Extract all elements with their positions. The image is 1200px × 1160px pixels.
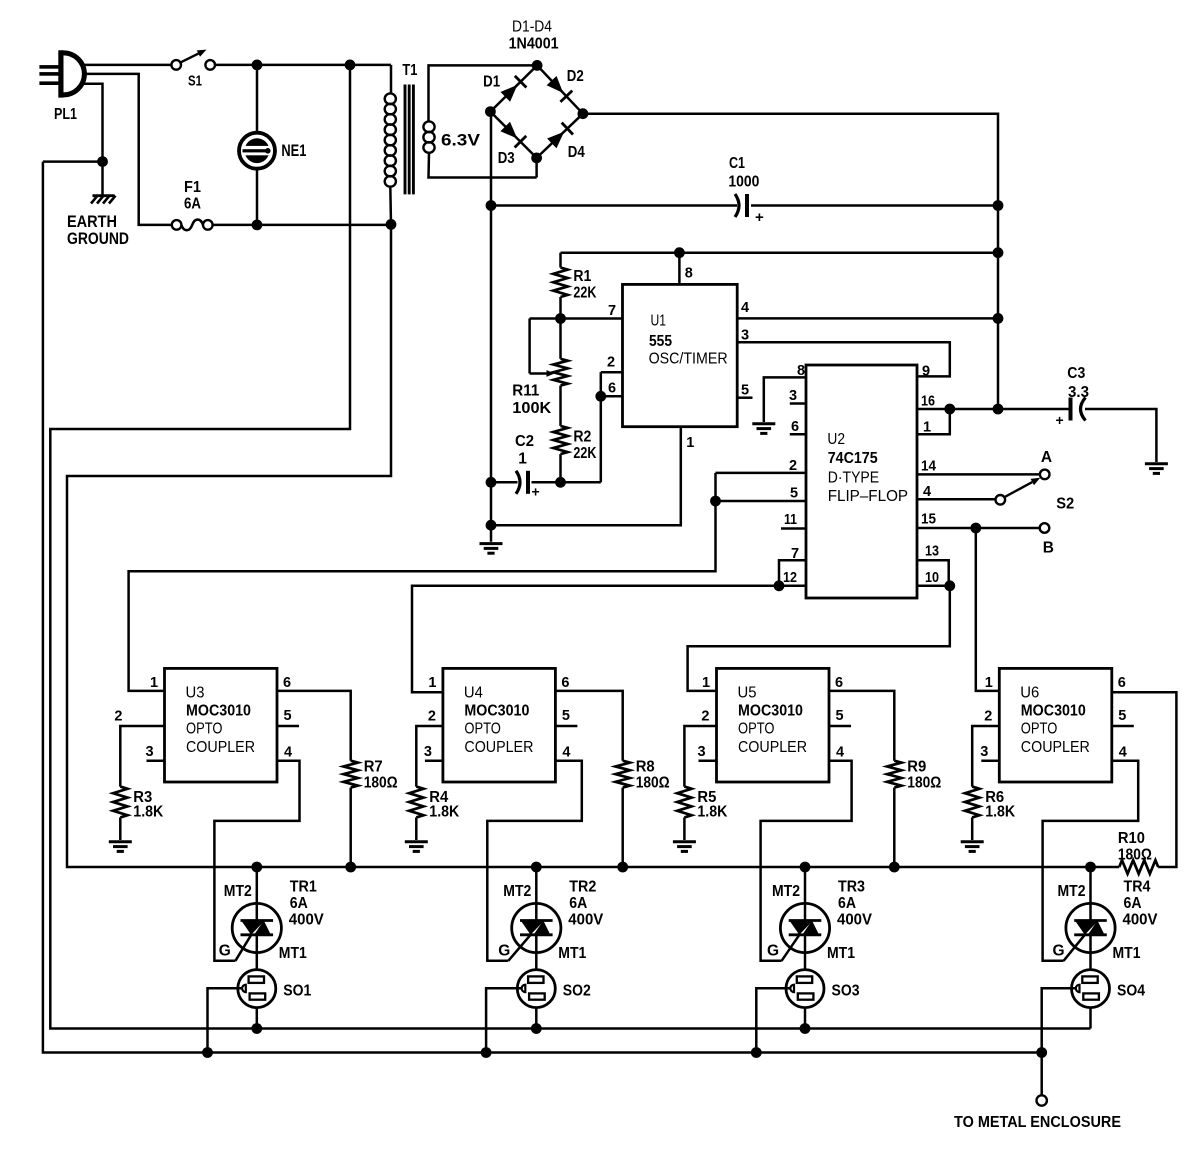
svg-text:MOC3010: MOC3010 xyxy=(186,703,251,720)
svg-text:6A: 6A xyxy=(1124,895,1142,912)
svg-text:6A: 6A xyxy=(184,196,201,213)
svg-text:1: 1 xyxy=(702,675,710,691)
wire U3 pin5 stub xyxy=(277,725,299,728)
node U2 pin10 junction xyxy=(944,580,955,591)
node U2 pin16 junction xyxy=(944,404,955,415)
svg-text:U6: U6 xyxy=(1020,685,1039,702)
wire U5 pin5 stub xyxy=(829,725,851,728)
svg-text:6A: 6A xyxy=(290,895,308,912)
svg-text:74C175: 74C175 xyxy=(828,450,878,467)
svg-text:1.8K: 1.8K xyxy=(697,804,728,821)
svg-text:D3: D3 xyxy=(498,150,515,167)
wire MT2 lead xyxy=(804,867,807,904)
wire ground junction to left rail xyxy=(43,160,103,163)
svg-text:COUPLER: COUPLER xyxy=(186,739,255,756)
node R2 bottom junction xyxy=(555,477,566,488)
svg-text:D4: D4 xyxy=(568,144,585,161)
wire fused drop to triac rail xyxy=(67,224,1119,867)
wire U2 pin11 stub xyxy=(781,527,806,530)
wire U6 pin6 to R10 xyxy=(1112,692,1177,867)
socket SO4 xyxy=(1072,970,1110,1008)
switch S2 blade xyxy=(1005,482,1032,497)
node pin4 right junction xyxy=(993,313,1004,324)
svg-text:5: 5 xyxy=(741,383,749,399)
svg-text:12: 12 xyxy=(783,570,797,586)
svg-text:7: 7 xyxy=(608,303,616,319)
node bridge bottom vertex xyxy=(531,153,542,164)
resistor R7 180 xyxy=(344,761,358,788)
svg-text:U4: U4 xyxy=(464,685,483,702)
wire U2 pin10 xyxy=(917,585,949,588)
svg-text:400V: 400V xyxy=(837,912,873,929)
node R8 rail junction xyxy=(617,862,628,873)
svg-text:6: 6 xyxy=(791,419,799,435)
svg-text:16: 16 xyxy=(921,394,935,410)
svg-text:R7: R7 xyxy=(364,759,383,776)
wire plug ground drop xyxy=(82,84,103,162)
svg-text:180Ω: 180Ω xyxy=(364,775,398,792)
wire U2 pin15 to B xyxy=(917,527,1040,530)
wire U5 pin3 stub xyxy=(699,759,717,762)
wire plug hot to S1 xyxy=(82,64,172,67)
svg-text:NE1: NE1 xyxy=(281,142,306,160)
node SO3 rail1 junction xyxy=(800,1023,811,1034)
node NE1 top tap xyxy=(252,60,263,71)
terminal A xyxy=(1040,470,1050,480)
svg-text:D1-D4: D1-D4 xyxy=(512,19,552,36)
wire gate diagonal TR1 xyxy=(235,934,251,961)
svg-text:MT1: MT1 xyxy=(827,945,855,962)
svg-text:4: 4 xyxy=(284,745,292,761)
node R9 rail junction xyxy=(889,862,900,873)
svg-text:4: 4 xyxy=(836,745,844,761)
node R1 bottom junction xyxy=(555,313,566,324)
AC plug PL1 xyxy=(58,50,63,97)
svg-text:S2: S2 xyxy=(1056,496,1074,513)
wire MT1 lead xyxy=(535,953,538,970)
svg-text:TR2: TR2 xyxy=(569,879,596,896)
svg-text:2: 2 xyxy=(789,458,797,474)
ground C3 xyxy=(1145,462,1168,465)
svg-text:5: 5 xyxy=(284,708,292,724)
wire U1 pin7 xyxy=(530,317,623,320)
svg-text:180Ω: 180Ω xyxy=(907,775,941,792)
svg-text:400V: 400V xyxy=(289,912,325,929)
wire U4 pin6 to R xyxy=(555,691,622,761)
node TR1 MT2 rail junction xyxy=(251,862,262,873)
resistor R10 180 xyxy=(1119,860,1158,874)
capacitor C1 line right xyxy=(751,204,998,207)
opto-coupler U4 box xyxy=(443,668,556,782)
triac TR1 xyxy=(232,903,281,952)
wire SO4 bottom lead xyxy=(1089,1008,1092,1029)
svg-text:R8: R8 xyxy=(636,759,655,776)
svg-text:G: G xyxy=(498,943,510,960)
svg-text:OSC/TIMER: OSC/TIMER xyxy=(649,351,728,368)
diode D3 xyxy=(500,122,517,139)
svg-text:1: 1 xyxy=(150,675,158,691)
svg-text:MT1: MT1 xyxy=(1113,945,1141,962)
fuse F1 xyxy=(172,220,182,230)
svg-text:3: 3 xyxy=(980,744,988,760)
wire SO3 ground-pin lead xyxy=(756,988,790,1052)
wire U5 pin2 to R xyxy=(684,726,716,787)
svg-text:SO1: SO1 xyxy=(283,983,311,1000)
svg-text:1: 1 xyxy=(923,420,931,436)
wire U3 pin3 stub xyxy=(147,759,165,762)
node SO2 rail2 junction xyxy=(481,1047,492,1058)
capacitor C1 xyxy=(735,194,739,217)
svg-text:1.8K: 1.8K xyxy=(985,804,1016,821)
svg-text:5: 5 xyxy=(1118,708,1126,724)
wire MT1 lead xyxy=(804,953,807,970)
svg-text:400V: 400V xyxy=(568,912,604,929)
svg-text:6: 6 xyxy=(608,381,616,397)
wire to metal enclosure xyxy=(1040,1053,1043,1096)
svg-text:R9: R9 xyxy=(907,759,926,776)
node SO4 rail2 junction xyxy=(1036,1047,1047,1058)
wire C2 to R2 xyxy=(532,481,601,484)
wire U2 pin15 to U6 feed xyxy=(976,528,1000,691)
svg-text:R11: R11 xyxy=(512,383,539,400)
svg-text:10: 10 xyxy=(925,570,939,586)
svg-text:555: 555 xyxy=(649,333,672,350)
wire SO2 bottom lead xyxy=(535,1008,538,1029)
potentiometer R11 xyxy=(553,359,567,386)
ground R6 xyxy=(961,840,984,843)
svg-text:9: 9 xyxy=(922,364,930,380)
node NE1 bottom tap xyxy=(252,220,263,231)
node SO1 rail1 junction xyxy=(251,1023,262,1034)
ground R5 xyxy=(673,840,696,843)
wire MT1 lead xyxy=(1089,953,1092,970)
svg-text:6A: 6A xyxy=(838,895,856,912)
wire U2 pin4 to S2 xyxy=(917,498,995,501)
wire switched-hot top rail xyxy=(215,64,391,67)
wire SO1 ground-pin lead xyxy=(208,988,243,1052)
svg-text:4: 4 xyxy=(562,745,570,761)
svg-text:R1: R1 xyxy=(573,268,591,285)
svg-text:2: 2 xyxy=(984,709,992,725)
node C1 right junction xyxy=(993,200,1004,211)
svg-text:OPTO: OPTO xyxy=(464,721,501,738)
svg-text:5: 5 xyxy=(790,486,798,502)
wire fused line to transformer xyxy=(212,224,391,227)
node SO3 rail2 junction xyxy=(751,1047,762,1058)
svg-text:100K: 100K xyxy=(512,400,552,417)
wire SO4 ground-pin lead xyxy=(1042,988,1076,1052)
triac TR2 xyxy=(512,903,561,952)
svg-text:6: 6 xyxy=(561,675,569,691)
wire MT1 lead xyxy=(256,953,259,970)
wire U2 pin14 to A xyxy=(917,473,1040,476)
svg-text:1: 1 xyxy=(985,675,993,691)
wire gate diagonal TR4 xyxy=(1064,934,1086,961)
resistor R3 1.8K xyxy=(113,787,127,818)
node C1 left junction xyxy=(486,200,497,211)
svg-text:MOC3010: MOC3010 xyxy=(1021,703,1086,720)
svg-text:1: 1 xyxy=(686,435,694,451)
wire U1 pin6 xyxy=(601,395,623,398)
wire SO3 bottom lead xyxy=(804,1008,807,1029)
wire U2 pin12 to U4 feed xyxy=(412,586,779,693)
triac TR4 xyxy=(1066,903,1115,952)
svg-text:2: 2 xyxy=(428,709,436,725)
socket SO1 xyxy=(238,970,276,1008)
wire U6 pin5 stub xyxy=(1112,725,1134,728)
transformer T1 primary xyxy=(390,65,393,94)
svg-text:MOC3010: MOC3010 xyxy=(464,703,529,720)
svg-text:2: 2 xyxy=(607,355,615,371)
wire U1 pin8 lead xyxy=(678,253,681,285)
svg-text:U5: U5 xyxy=(738,685,757,702)
node T1 primary bottom junction xyxy=(386,219,397,230)
opto-coupler U6 box xyxy=(999,668,1112,782)
socket SO3 xyxy=(786,970,824,1008)
svg-text:7: 7 xyxy=(791,546,799,562)
node bridge right vertex xyxy=(578,108,589,119)
svg-text:14: 14 xyxy=(921,459,936,475)
svg-text:PL1: PL1 xyxy=(54,106,77,123)
svg-text:TR1: TR1 xyxy=(290,879,317,896)
svg-text:C2: C2 xyxy=(515,433,534,450)
node U2 pin5 junction xyxy=(710,496,721,507)
svg-text:1.8K: 1.8K xyxy=(133,804,164,821)
node bridge top vertex xyxy=(532,60,543,71)
capacitor C2 line xyxy=(491,481,518,484)
svg-text:OPTO: OPTO xyxy=(1021,721,1058,738)
resistor R8 180 xyxy=(616,761,630,788)
svg-text:SO2: SO2 xyxy=(563,983,591,1000)
wire U1 pin2 xyxy=(601,371,623,374)
wire U2 pin5 xyxy=(716,500,807,503)
svg-text:C1: C1 xyxy=(729,155,745,172)
diode D1 xyxy=(501,85,518,102)
svg-text:11: 11 xyxy=(784,512,797,528)
svg-text:MT2: MT2 xyxy=(772,883,800,900)
resistor R2 xyxy=(553,426,567,454)
wire U3 pin2 to R xyxy=(120,726,164,787)
svg-text:MOC3010: MOC3010 xyxy=(738,703,803,720)
svg-text:6: 6 xyxy=(835,675,843,691)
wire U2 pin3 stub xyxy=(790,402,806,405)
wire gate diagonal TR2 xyxy=(508,934,531,961)
svg-text:5: 5 xyxy=(562,708,570,724)
svg-text:3: 3 xyxy=(698,744,706,760)
svg-text:3: 3 xyxy=(424,744,432,760)
svg-text:COUPLER: COUPLER xyxy=(464,739,533,756)
wire U4 pin4 to gate xyxy=(487,761,582,961)
op IC U1 555 box xyxy=(623,284,738,426)
node TR2 MT2 rail junction xyxy=(531,862,542,873)
svg-text:OPTO: OPTO xyxy=(738,721,775,738)
svg-text:MT1: MT1 xyxy=(558,945,586,962)
svg-text:5: 5 xyxy=(836,708,844,724)
opto-coupler U5 box xyxy=(717,668,830,782)
svg-text:SO4: SO4 xyxy=(1117,983,1145,1000)
svg-text:6A: 6A xyxy=(569,895,587,912)
wire plug neutral xyxy=(84,74,172,225)
svg-text:C3: C3 xyxy=(1067,365,1085,382)
terminal B xyxy=(1040,523,1050,533)
wire U2 pin1 bracket xyxy=(917,409,950,434)
transformer T1 core xyxy=(404,85,407,195)
svg-text:R2: R2 xyxy=(573,429,591,446)
svg-text:F1: F1 xyxy=(184,179,201,196)
wire C3 left xyxy=(998,408,1069,411)
svg-text:1000: 1000 xyxy=(728,174,759,191)
svg-text:180Ω: 180Ω xyxy=(1118,847,1152,864)
wire DC+ top rail xyxy=(583,114,998,409)
ground U2 pin8 xyxy=(752,422,775,425)
capacitor C2 xyxy=(516,471,520,494)
ground R4 xyxy=(405,840,428,843)
svg-text:13: 13 xyxy=(925,544,939,560)
svg-text:MT2: MT2 xyxy=(503,883,531,900)
svg-text:15: 15 xyxy=(921,512,936,528)
diode D2 xyxy=(547,76,564,93)
wire U2 pin16 line xyxy=(917,408,998,411)
svg-text:D·TYPE: D·TYPE xyxy=(828,470,879,487)
svg-text:MT2: MT2 xyxy=(1058,883,1086,900)
wire U4 pin2 to R xyxy=(416,726,443,787)
resistor R1 xyxy=(559,253,562,268)
wire gate diagonal TR3 xyxy=(782,934,800,961)
opto-coupler U3 box xyxy=(165,668,278,782)
wire U6 pin3 stub xyxy=(981,759,999,762)
wire SO1 bottom lead xyxy=(256,1008,259,1029)
node pin2-6 junction xyxy=(595,391,606,402)
node DC+ C3 junction xyxy=(993,404,1004,415)
switch S1 xyxy=(171,60,181,70)
wire U2 pin10 to U5 feed xyxy=(688,586,950,691)
node Vcc right junction xyxy=(993,247,1004,258)
node plug-ground junction xyxy=(97,156,108,167)
node U2 pin15 junction xyxy=(970,523,981,534)
svg-text:1N4001: 1N4001 xyxy=(509,36,559,53)
node TR4 MT2 rail junction xyxy=(1085,862,1096,873)
svg-text:4: 4 xyxy=(1119,745,1127,761)
svg-text:TR4: TR4 xyxy=(1124,879,1151,896)
node TR3 MT2 rail junction xyxy=(800,862,811,873)
svg-text:1: 1 xyxy=(428,675,436,691)
wire U1 pin2-6 bracket xyxy=(600,372,603,396)
capacitor C1 line left xyxy=(491,204,737,207)
svg-text:A: A xyxy=(1041,449,1052,466)
wire MT2 lead xyxy=(535,867,538,904)
node bridge left vertex xyxy=(485,106,496,117)
wire C3 right to ground xyxy=(1085,409,1156,462)
resistor R4 1.8K xyxy=(409,787,423,818)
svg-text:2: 2 xyxy=(701,709,709,725)
resistor R9 180 xyxy=(887,761,901,788)
svg-text:B: B xyxy=(1043,540,1054,557)
node R7 rail junction xyxy=(345,862,356,873)
wire DC- vertical xyxy=(490,112,493,526)
wire U3 pin4 to gate xyxy=(214,761,299,961)
svg-text:400V: 400V xyxy=(1123,912,1159,929)
socket SO2 xyxy=(517,970,555,1008)
svg-text:4: 4 xyxy=(741,300,749,316)
node SO2 rail1 junction xyxy=(531,1023,542,1034)
wire U4 pin3 stub xyxy=(425,759,443,762)
wire U6 pin4 to gate xyxy=(1043,761,1139,961)
svg-text:MT1: MT1 xyxy=(279,945,307,962)
svg-text:G: G xyxy=(219,943,231,960)
wire bottom vertex drop xyxy=(535,158,538,178)
svg-text:4: 4 xyxy=(923,484,931,500)
svg-text:U2: U2 xyxy=(827,431,845,448)
svg-text:6: 6 xyxy=(283,675,291,691)
wire MT2 lead xyxy=(1089,867,1092,904)
node C2 left junction xyxy=(486,477,497,488)
svg-text:G: G xyxy=(1053,943,1065,960)
wire U3 pin6 to R xyxy=(277,691,351,761)
wire U2 pin2-5 drop to U3 feed xyxy=(129,473,716,691)
terminal metal enclosure xyxy=(1037,1095,1047,1105)
diode D4 xyxy=(547,132,564,149)
svg-text:D2: D2 xyxy=(567,68,584,85)
node pin8 tap xyxy=(674,247,685,258)
wire U2 pin8 to ground xyxy=(764,377,806,422)
svg-text:SO3: SO3 xyxy=(832,983,860,1000)
svg-text:180Ω: 180Ω xyxy=(636,775,670,792)
neon lamp NE1 xyxy=(256,65,259,133)
node ground line junction xyxy=(486,520,497,531)
svg-text:1: 1 xyxy=(518,451,527,468)
node neutral-return tap xyxy=(345,60,356,71)
svg-text:GROUND: GROUND xyxy=(67,229,129,248)
wire U1 pin1 to ground line xyxy=(491,427,681,526)
svg-text:T1: T1 xyxy=(402,62,417,79)
svg-text:COUPLER: COUPLER xyxy=(738,739,807,756)
svg-text:MT2: MT2 xyxy=(224,883,252,900)
svg-text:FLIP–FLOP: FLIP–FLOP xyxy=(828,488,908,505)
switch S2 common xyxy=(996,495,1006,505)
svg-text:R10: R10 xyxy=(1118,830,1145,847)
earth ground symbol xyxy=(101,162,104,195)
wire U2 pin13 bracket xyxy=(917,560,949,586)
resistor R6 1.8K xyxy=(965,787,979,818)
node SO1 rail2 junction xyxy=(202,1047,213,1058)
wire U2 pin7 bracket xyxy=(779,560,806,586)
transformer T1 secondary xyxy=(429,65,538,122)
svg-text:8: 8 xyxy=(797,363,805,379)
svg-text:6.3V: 6.3V xyxy=(441,131,481,150)
svg-text:TO METAL ENCLOSURE: TO METAL ENCLOSURE xyxy=(954,1114,1121,1131)
wire SO2 ground-pin lead xyxy=(486,988,521,1052)
wire U5 pin6 to R xyxy=(829,691,894,761)
bridge outline xyxy=(490,65,537,111)
wire MT2 lead xyxy=(256,867,259,904)
IC U2 74C175 box xyxy=(806,365,917,598)
svg-text:1.8K: 1.8K xyxy=(429,804,460,821)
ground R3 xyxy=(109,840,132,843)
svg-text:+: + xyxy=(755,209,764,226)
svg-text:22K: 22K xyxy=(573,285,597,302)
svg-text:3.3: 3.3 xyxy=(1068,384,1089,401)
svg-text:TR3: TR3 xyxy=(838,879,865,896)
wire pin6 drop to C2 line xyxy=(600,396,603,482)
resistor R5 1.8K xyxy=(677,787,691,818)
triac TR3 xyxy=(780,903,829,952)
svg-text:COUPLER: COUPLER xyxy=(1021,739,1090,756)
wire U2 pin2 xyxy=(716,472,807,475)
wire U1 pin3 line xyxy=(737,342,950,376)
wire U2 pin6 stub xyxy=(790,433,806,436)
svg-text:S1: S1 xyxy=(188,73,202,90)
svg-text:G: G xyxy=(767,943,779,960)
